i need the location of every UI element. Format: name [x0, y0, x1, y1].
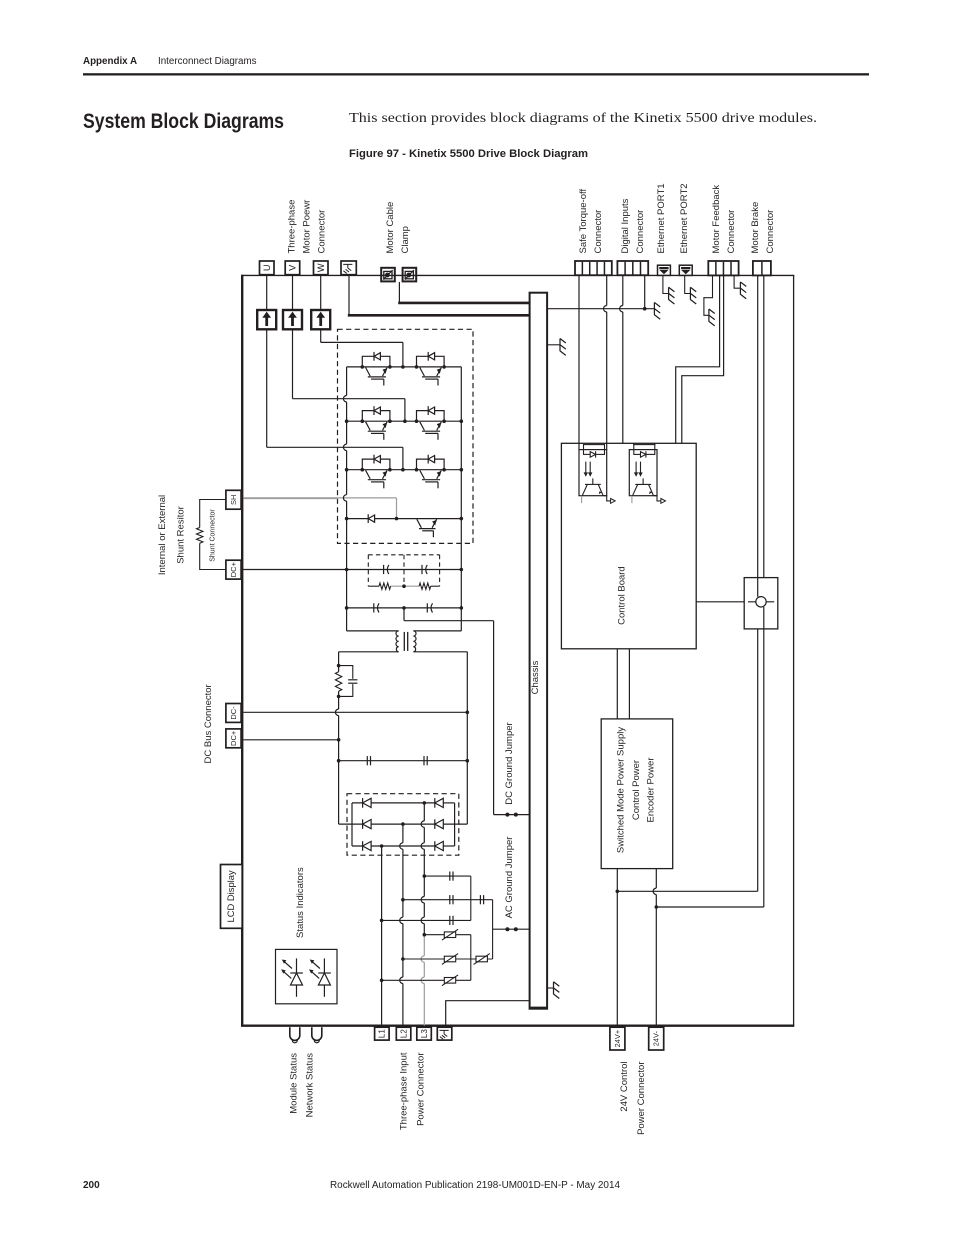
safe torque-off connector (5 pins) [575, 261, 612, 275]
wire: 24V+ tie to brake [617, 890, 757, 892]
svg-text:24V Control: 24V Control [619, 1062, 630, 1112]
junction dot: 24V- tie [655, 905, 659, 909]
wire: bus row with series caps [347, 607, 462, 609]
junction dots: inverter bus/rail joints [345, 419, 349, 423]
svg-text:Interconnect Diagrams: Interconnect Diagrams [158, 56, 257, 67]
svg-text:24V-: 24V- [652, 1030, 661, 1046]
svg-text:Connector: Connector [316, 210, 327, 254]
svg-text:Digital Inputs: Digital Inputs [620, 198, 631, 253]
svg-text:V: V [288, 264, 298, 271]
drive enclosure frame bottom edge [241, 1024, 794, 1026]
svg-text:System Block Diagrams: System Block Diagrams [83, 110, 284, 133]
DC link right rail [466, 652, 468, 824]
svg-text:Ethernet PORT2: Ethernet PORT2 [679, 183, 690, 253]
motor feedback pin 4 shield ground [734, 275, 740, 288]
junction dot: snubber resistor midpoint [402, 584, 406, 588]
LED module status [281, 958, 303, 996]
module status connector [290, 1027, 300, 1040]
junction dot: 24V+ tie [616, 890, 620, 894]
IGBT lower W (right) with freewheel diode [415, 455, 446, 489]
wire: shunt (SH) feed to brake leg (gray) [243, 497, 396, 499]
svg-text:Connector: Connector [726, 210, 737, 254]
svg-text:This section provides block di: This section provides block diagrams of … [349, 110, 817, 125]
MOV row E [403, 958, 493, 960]
inverter right bus [460, 367, 462, 519]
junction dot: DI ground node [643, 307, 647, 311]
svg-text:Shunt Connector: Shunt Connector [209, 509, 216, 562]
wire: phase lead from terminal to current sensor [266, 275, 268, 310]
connector W terminal [314, 261, 329, 275]
wire: motor clamp bond to chassis (thick) [398, 282, 400, 303]
current sensor (arrow box) [311, 310, 330, 329]
bus capacitor C4 [427, 603, 432, 612]
wire: motor ground terminal bond to chassis (thick) [348, 275, 350, 316]
SH terminal [226, 490, 241, 509]
24V- terminal [649, 1027, 664, 1050]
svg-text:U: U [262, 265, 272, 272]
motor cable clamp left [381, 268, 395, 282]
STO optocoupler 1 [578, 443, 580, 449]
damper capacitor C5 branch [339, 666, 353, 679]
connector U terminal [260, 261, 275, 275]
junction dots: L2 EMI taps [401, 898, 405, 902]
inverter IGBT module dashed outline [338, 329, 474, 543]
current sensor (arrow box) [283, 310, 302, 329]
chassis stud ground (bottom) [547, 987, 553, 989]
drive enclosure frame left edge [241, 275, 243, 1026]
snubber resistor R2 [419, 583, 431, 589]
STO optocoupler 2 [633, 443, 635, 445]
wire: phase lead from terminal to current sensor [292, 275, 294, 310]
svg-text:Status Indicators: Status Indicators [295, 867, 306, 938]
svg-text:24V+: 24V+ [613, 1030, 622, 1047]
shunt DC+ terminal [226, 560, 241, 579]
wire: board to brake relay [696, 601, 744, 603]
svg-text:Connector: Connector [593, 210, 604, 254]
rectifier left bus [351, 803, 353, 846]
junction dots: rectifier phase taps [423, 801, 427, 805]
IGBT upper U (left) with freewheel diode [361, 352, 392, 386]
L3 phase line (gray lower) [423, 803, 425, 821]
external shunt resistor loop [200, 500, 226, 528]
ethernet PORT1 shield ground [663, 275, 669, 293]
svg-text:Motor Poewr: Motor Poewr [301, 200, 312, 254]
wire: phase lead from terminal to current sensor [320, 275, 322, 310]
motor brake connector (2 pins) [753, 261, 771, 275]
wire: U phase feed to lower inverter leg [266, 329, 268, 447]
svg-text:LCD Display: LCD Display [225, 870, 236, 922]
status indicators box [276, 949, 338, 1003]
L3 terminal [417, 1027, 432, 1040]
rectifier rows [352, 802, 435, 804]
wire: STO pin 1 down to opto [578, 275, 580, 449]
wire: W phase feed to top inverter leg [320, 329, 322, 342]
snubber capacitor C2 [422, 565, 427, 574]
svg-text:Network Status: Network Status [304, 1053, 315, 1118]
junction dots: DC+ row [345, 568, 349, 572]
svg-text:Switched Mode Power Supply: Switched Mode Power Supply [616, 727, 627, 853]
connector V terminal [285, 261, 300, 275]
connector motor power ground terminal [341, 261, 356, 275]
switched mode power supply box [601, 719, 673, 869]
AC ground jumper [493, 928, 530, 930]
drive enclosure frame top bus [241, 274, 794, 276]
svg-text:Three-phase: Three-phase [286, 200, 297, 254]
motor cable clamp right [403, 268, 417, 282]
digital inputs connector (4 pins) [617, 261, 648, 275]
svg-text:L2: L2 [399, 1029, 408, 1038]
chassis stud ground (right upper) [547, 344, 560, 346]
ground symbol at DI common [645, 308, 655, 310]
svg-text:Connector: Connector [635, 210, 646, 254]
DC+ terminal [226, 729, 241, 748]
motor feedback connector (4 pins) [708, 261, 738, 275]
L2 phase line [402, 824, 404, 843]
wire: DC+ row through snubber caps [243, 569, 461, 571]
L2 terminal [396, 1027, 411, 1040]
wire: 24V- tie to brake [656, 906, 764, 908]
svg-text:Internal or External: Internal or External [157, 495, 168, 575]
control board [561, 443, 696, 649]
rectifier diode pair row at y=846.0 [363, 841, 372, 851]
snubber resistor R1 [379, 583, 391, 589]
Ethernet PORT2 connector [679, 265, 692, 275]
svg-text:L1: L1 [378, 1029, 387, 1038]
svg-text:Encoder Power: Encoder Power [646, 758, 657, 823]
svg-text:Figure 97 - Kinetix 5500 Drive: Figure 97 - Kinetix 5500 Drive Block Dia… [349, 148, 588, 160]
snubber network dashed outline [367, 555, 369, 586]
brake rail row 4 [347, 518, 462, 520]
IGBT upper V (left) with freewheel diode [361, 406, 392, 440]
svg-text:Safe Torque-off: Safe Torque-off [578, 189, 589, 254]
L1 terminal [375, 1027, 390, 1040]
svg-text:W: W [316, 263, 326, 272]
junction dots: L1 EMI taps [380, 919, 384, 923]
wire: DC+ from DC bus connector [243, 739, 338, 741]
drive enclosure frame right edge [793, 275, 795, 1025]
svg-text:Connector: Connector [765, 210, 776, 254]
rectifier right bus [454, 803, 456, 846]
svg-text:Power Connector: Power Connector [636, 1062, 647, 1135]
svg-text:Rockwell Automation Publicatio: Rockwell Automation Publication 2198-UM0… [330, 1180, 620, 1191]
wire: chassis to digital input common ground [547, 308, 645, 310]
wire: 24V- feed [655, 869, 657, 889]
svg-text:DC Bus Connector: DC Bus Connector [203, 684, 214, 763]
junction dots: phase tap points [401, 365, 405, 369]
DC link capacitor row [339, 760, 468, 762]
svg-text:Ethernet PORT1: Ethernet PORT1 [656, 183, 667, 253]
wire: midpoint tap to DC ground jumper [403, 608, 405, 621]
cap/MOV tie bus [492, 900, 494, 959]
wire: STO pin 5 down to opto [606, 275, 608, 305]
24V+ terminal [610, 1027, 625, 1050]
DC link capacitor C7 [424, 756, 427, 765]
rectifier bridge dashed outline [347, 794, 459, 856]
svg-text:Motor Brake: Motor Brake [750, 202, 761, 254]
svg-text:200: 200 [83, 1180, 100, 1191]
svg-text:AC Ground Jumper: AC Ground Jumper [504, 837, 515, 919]
wire: digital input return to chassis ground [644, 275, 646, 308]
brake IGBT Q7 [417, 519, 437, 537]
network status connector [312, 1027, 322, 1040]
ethernet PORT2 shield ground [685, 275, 691, 293]
chassis bar [530, 293, 548, 1009]
svg-text:Shunt Resitor: Shunt Resitor [175, 506, 186, 564]
svg-text:Power Connector: Power Connector [415, 1053, 426, 1126]
wire: V phase feed to middle inverter leg [292, 329, 294, 398]
Ethernet PORT1 connector [658, 265, 671, 275]
Y-cap row A [424, 875, 471, 877]
motor brake pair down to relay [757, 275, 759, 577]
junction dots: DC- end and cap row right [466, 711, 470, 715]
wire: SH gray lead [243, 498, 337, 500]
brake pair below relay [757, 629, 759, 891]
bus capacitor C3 [374, 603, 379, 612]
svg-text:DC+: DC+ [229, 561, 238, 577]
Y-cap common bus [470, 876, 472, 920]
rectifier diode pair row at y=802.9 [363, 798, 372, 808]
header rule [83, 73, 869, 75]
wire: 24V+ feed [616, 869, 618, 1026]
inverter bus continuation to choke [346, 519, 348, 631]
junction dots: L3 EMI taps [423, 874, 427, 878]
wire: DC- from DC bus connector [243, 711, 467, 713]
inverter DC+ left bus [346, 367, 348, 396]
brake diode D7 [368, 514, 374, 523]
DC- terminal [226, 704, 241, 723]
svg-text:Chassis: Chassis [530, 660, 541, 694]
MOV common bus [470, 935, 472, 981]
label: LCD Display box [221, 865, 243, 929]
snubber capacitor C1 [384, 565, 389, 574]
motor feedback signal pair jog into board [676, 275, 720, 443]
LED network status [309, 958, 331, 996]
svg-text:Motor Feedback: Motor Feedback [711, 185, 722, 254]
Y-cap row C [382, 919, 471, 921]
wires: board to SMPS [616, 649, 618, 719]
svg-text:SH: SH [229, 495, 238, 505]
svg-text:DC Ground Jumper: DC Ground Jumper [504, 722, 515, 804]
svg-text:Three-phase Input: Three-phase Input [398, 1052, 409, 1130]
svg-text:Control Board: Control Board [616, 566, 627, 625]
wire: digital input pin down to board [622, 275, 624, 305]
IGBT lower U (right) with freewheel diode [415, 352, 446, 386]
input power ground terminal [437, 1027, 452, 1040]
Y-cap row B [403, 899, 493, 901]
damper resistor R3 [335, 672, 341, 691]
rectifier diode pair row at y=824.1 [363, 819, 372, 829]
svg-text:Motor Cable: Motor Cable [385, 202, 396, 254]
left rail to rectifier [338, 696, 340, 709]
svg-text:DC+: DC+ [229, 730, 238, 746]
phase rail row 2 [347, 420, 462, 422]
DC link left rail with RC damper [338, 652, 340, 666]
IGBT upper W (left) with freewheel diode [361, 455, 392, 489]
L1 phase line [381, 846, 383, 1026]
svg-text:Clamp: Clamp [400, 226, 411, 253]
phase rail row 3 [347, 469, 462, 471]
MOV row F [382, 979, 471, 981]
svg-text:Appendix A: Appendix A [83, 56, 137, 67]
wire: input ground to chassis [446, 1001, 530, 1027]
junction dots: DC+ tee and cap row left [337, 738, 341, 742]
junction dots: bus cap row [345, 606, 349, 610]
svg-text:Module Status: Module Status [288, 1053, 299, 1114]
current sensor (arrow box) [257, 310, 276, 329]
brake relay box [744, 578, 778, 629]
svg-text:DC-: DC- [229, 706, 238, 720]
DC ground jumper [494, 814, 530, 816]
snubber resistor row [368, 585, 379, 587]
common-mode choke (transformer) [347, 630, 399, 632]
MOV row D [424, 934, 471, 936]
IGBT lower V (right) with freewheel diode [415, 406, 446, 440]
svg-text:L3: L3 [420, 1029, 429, 1038]
phase rail row 1 [347, 366, 462, 368]
svg-text:Control Power: Control Power [631, 760, 642, 820]
motor feedback pin 1 shield ground [704, 275, 713, 315]
DC link capacitor C6 [367, 756, 370, 765]
